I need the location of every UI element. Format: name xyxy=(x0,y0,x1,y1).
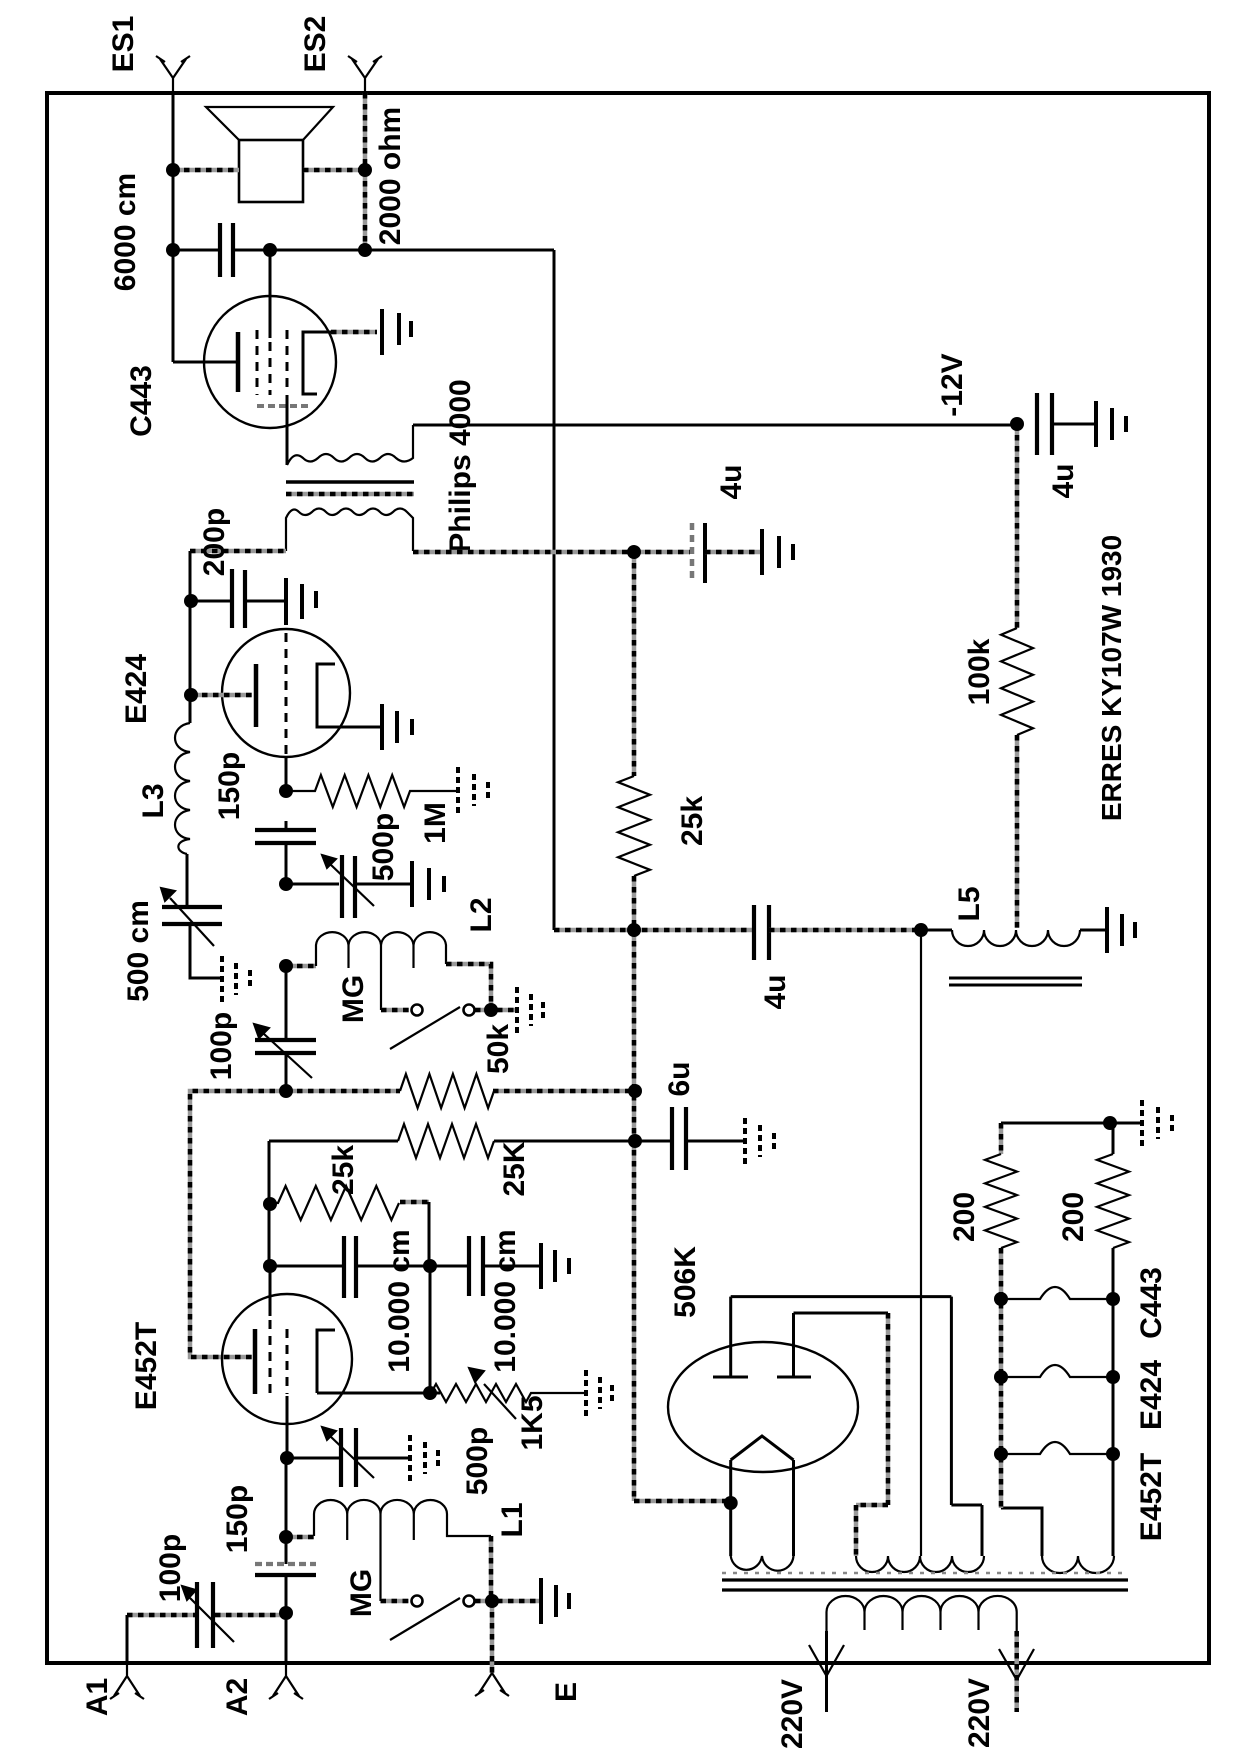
wire 150p stub xyxy=(285,821,288,884)
trimmer 500cm arrow xyxy=(161,888,214,946)
node E424 grid xyxy=(184,688,198,702)
ground 4u right xyxy=(1096,401,1126,447)
terminal A2 xyxy=(269,1662,303,1699)
trimmer 100p upper arrow xyxy=(254,1024,312,1078)
E452T dashed electrode 1 xyxy=(269,1320,272,1394)
ground 1M xyxy=(458,767,488,813)
capacitor 10000cm 1 xyxy=(344,1236,356,1298)
tube E452T envelope xyxy=(222,1294,352,1424)
svg-text:200: 200 xyxy=(948,1192,981,1242)
node heater C443 right xyxy=(1106,1292,1120,1306)
node y248 ES2 xyxy=(358,243,372,257)
node heater E452T left xyxy=(994,1447,1008,1461)
node A1 junction xyxy=(279,1606,293,1620)
wire A2 vertical mid xyxy=(285,1537,288,1613)
wire 100p upper stubs xyxy=(285,966,288,1091)
wire 25K line left xyxy=(269,1140,398,1143)
svg-text:ERRES KY107W 1930: ERRES KY107W 1930 xyxy=(1096,535,1127,821)
E452T grid bar xyxy=(253,1329,258,1394)
wire 100k bottom dotted xyxy=(1015,735,1020,928)
transformer secondary xyxy=(286,509,413,552)
resistor 200 right xyxy=(1097,1154,1129,1248)
wire 25k vert top dotted xyxy=(632,552,637,776)
heater E424 row xyxy=(1001,1365,1113,1377)
506K anode 2 xyxy=(777,1313,811,1377)
C443 grid bar xyxy=(236,332,241,392)
heater E452T row xyxy=(1001,1442,1113,1454)
tube 506K envelope xyxy=(668,1342,858,1472)
terminal ES1 xyxy=(156,56,190,93)
switch MG lower contact 1 xyxy=(412,1596,423,1607)
wire L2 right down xyxy=(446,964,491,1010)
resistor 100k xyxy=(1001,628,1033,735)
wire L1 tap to contact xyxy=(381,1599,410,1604)
node L1 top xyxy=(279,1530,293,1544)
node heater E452T right xyxy=(1106,1447,1120,1461)
wire L1 right down xyxy=(489,1536,494,1601)
svg-text:MG: MG xyxy=(337,975,370,1023)
transformer winding HV xyxy=(856,1556,984,1572)
wire HT centre tap xyxy=(920,930,922,1556)
ground L2 switch xyxy=(517,987,543,1033)
wire speaker right xyxy=(303,168,365,173)
svg-text:E452T: E452T xyxy=(130,1322,163,1410)
node B+ x1017 xyxy=(1010,417,1024,431)
tube E424 envelope xyxy=(222,629,350,757)
wire A2 vertical upper xyxy=(285,1458,288,1537)
capacitor 6u xyxy=(672,1107,686,1170)
svg-text:4u: 4u xyxy=(1047,463,1080,498)
resistor 50k xyxy=(400,1074,494,1108)
wire cap2 right xyxy=(483,1265,539,1268)
terminal E xyxy=(475,1673,509,1696)
wire L1 tap xyxy=(379,1514,381,1601)
wire 200p right xyxy=(245,600,284,603)
wire E452T anode out xyxy=(317,1392,440,1395)
trimmer 500p upper arrow xyxy=(322,855,374,906)
svg-text:50k: 50k xyxy=(482,1024,515,1074)
wire 25k jog xyxy=(400,1200,429,1205)
trimmer 500p upper xyxy=(342,855,355,918)
transformer winding heater xyxy=(1042,1556,1114,1573)
node 1K5 left xyxy=(423,1386,437,1400)
506K filament xyxy=(731,1436,794,1556)
svg-text:L1: L1 xyxy=(496,1502,529,1537)
svg-text:100p: 100p xyxy=(205,1012,238,1080)
node 6u xyxy=(628,1134,642,1148)
node speaker left xyxy=(166,163,180,177)
wire 500cm bottom xyxy=(190,924,220,978)
transformer winding rectifier xyxy=(731,1556,794,1571)
svg-text:500 cm: 500 cm xyxy=(122,900,155,1002)
wire C443 to transformer xyxy=(286,395,289,465)
node cap2 left xyxy=(423,1259,437,1273)
svg-text:500p: 500p xyxy=(367,813,400,881)
transformer core dotted xyxy=(286,492,414,497)
svg-text:1K5: 1K5 xyxy=(516,1395,549,1450)
heater C443 row xyxy=(1001,1287,1113,1299)
capacitor 4u left plate gray xyxy=(690,523,695,583)
wire E424 bottom xyxy=(285,757,288,791)
wire 500p lower left xyxy=(287,1457,339,1460)
506K anode 1 xyxy=(713,1297,748,1377)
terminal ES2 xyxy=(348,56,382,93)
inductor L1 ticks xyxy=(347,1514,414,1540)
trimmer 100p lower xyxy=(197,1582,213,1648)
capacitor 4u right plate xyxy=(703,523,707,583)
ground 1K5 xyxy=(586,1370,612,1416)
wire E452T cathode down xyxy=(286,1396,289,1458)
E452T anode wire top xyxy=(269,1266,272,1316)
svg-text:ES2: ES2 xyxy=(299,16,332,73)
wire L1 in xyxy=(286,1535,314,1540)
wire E424 cathode to ground xyxy=(317,726,380,729)
ground 10000cm 2 xyxy=(541,1243,569,1289)
wire anode1 top xyxy=(731,1297,982,1556)
wire dotted 50k line xyxy=(286,1089,400,1094)
terminal A1 xyxy=(110,1662,144,1699)
node 200p xyxy=(184,594,198,608)
terminal 220V right xyxy=(999,1631,1034,1712)
wire x269 down xyxy=(268,1141,271,1266)
resistor 1K5 arrow xyxy=(469,1368,516,1419)
svg-text:C443: C443 xyxy=(1135,1267,1168,1339)
svg-text:L5: L5 xyxy=(953,886,986,921)
resistor 200 left xyxy=(985,1154,1017,1248)
E424 anode bracket xyxy=(317,664,335,727)
wire C443 cathode to ground xyxy=(331,330,377,335)
resistor 1K5 xyxy=(431,1384,584,1402)
wire heater rail left top dotted xyxy=(999,1123,1004,1154)
wire heater winding left leg xyxy=(1001,1508,1042,1556)
svg-text:25k: 25k xyxy=(676,796,709,846)
terminal 220V left xyxy=(809,1631,844,1712)
ground E424 cathode xyxy=(382,704,412,750)
E452T center dashed xyxy=(286,1329,289,1394)
inductor L2 xyxy=(316,932,446,966)
wire heater rail left dotted xyxy=(999,1248,1004,1508)
wire 500p upper left xyxy=(286,883,339,886)
capacitor 6000cm xyxy=(220,223,233,277)
svg-text:MG: MG xyxy=(345,1569,378,1617)
node E424 bottom xyxy=(279,784,293,798)
node y551 xyxy=(627,545,641,559)
wire E424 grid in xyxy=(191,693,252,698)
svg-text:2000 ohm: 2000 ohm xyxy=(374,107,407,245)
node 500p lower xyxy=(280,1451,294,1465)
wire heater bus top xyxy=(1001,1122,1140,1125)
wire contact2 to ground xyxy=(475,1008,515,1013)
ground L5 xyxy=(1107,907,1135,953)
wire heater rail right xyxy=(1112,1248,1115,1556)
resistor 1M xyxy=(286,775,456,807)
inductor L3 xyxy=(175,723,190,854)
transformer primary Philips 4000 xyxy=(287,425,413,465)
ground 500p upper xyxy=(412,861,444,907)
transformer primary ticks xyxy=(865,1612,979,1630)
transformer core xyxy=(286,480,414,484)
wire node line y551 left xyxy=(190,549,286,554)
wire contact2 to E node xyxy=(475,1599,539,1604)
svg-text:500p: 500p xyxy=(461,1427,494,1495)
svg-text:E: E xyxy=(550,1682,583,1702)
ground 6u xyxy=(745,1118,774,1164)
svg-text:E424: E424 xyxy=(1135,1360,1168,1430)
node L2 ground xyxy=(484,1003,498,1017)
wire A1 vertical xyxy=(126,1615,129,1662)
inductor L1 xyxy=(314,1500,491,1536)
switch MG upper lever xyxy=(390,1007,460,1049)
wire to 4u mid xyxy=(634,550,690,555)
wire 4u bottom right dotted xyxy=(769,928,921,933)
svg-text:150p: 150p xyxy=(213,752,246,820)
wire E terminal xyxy=(490,1601,495,1673)
ground heater bus xyxy=(1142,1100,1172,1146)
wire A1 dashed xyxy=(127,1613,286,1618)
trimmer 500cm plates xyxy=(162,907,222,924)
C443 grid dashed 2 xyxy=(286,330,289,393)
ground 500cm xyxy=(222,956,250,1002)
trimmer 500p lower arrow xyxy=(322,1427,374,1478)
wire L5 right xyxy=(1080,929,1105,932)
transformer core line 2 xyxy=(722,1588,1128,1591)
ground L1 switch xyxy=(541,1578,569,1624)
wire right vertical x554 xyxy=(553,250,556,930)
svg-text:220V: 220V xyxy=(776,1679,809,1749)
wire L2 tap xyxy=(380,945,382,1010)
svg-text:4u: 4u xyxy=(759,974,792,1009)
wire 100k top dotted xyxy=(1015,424,1020,628)
wire ES2 vertical xyxy=(363,93,368,250)
C443 center dashed xyxy=(269,342,272,395)
wire anode line y248 xyxy=(173,249,554,252)
wire transformer to B line xyxy=(413,424,1017,427)
switch MG lower lever xyxy=(390,1598,460,1640)
C443 anode wire top xyxy=(269,250,272,338)
ground 200p xyxy=(286,578,316,625)
svg-text:A2: A2 xyxy=(221,1678,254,1716)
node 506K filament xyxy=(724,1496,738,1510)
svg-text:Philips 4000: Philips 4000 xyxy=(444,379,477,552)
switch MG upper contact 1 xyxy=(412,1005,423,1016)
wire heater dotted x635 down xyxy=(634,930,730,1501)
capacitor 4u bottom xyxy=(754,905,769,960)
wire speaker left xyxy=(173,168,239,173)
svg-text:1M: 1M xyxy=(419,802,452,844)
node grid leak top xyxy=(263,1197,277,1211)
node heater E424 left xyxy=(994,1370,1008,1384)
capacitor 200p xyxy=(232,569,245,628)
inductor L5 xyxy=(952,930,1080,946)
wire L2 tap to contact xyxy=(381,1008,409,1013)
svg-text:6u: 6u xyxy=(663,1061,696,1096)
wire 500p lower right xyxy=(356,1457,408,1460)
svg-text:10.000 cm: 10.000 cm xyxy=(383,1229,416,1372)
transformer primary 220V xyxy=(827,1596,1017,1631)
node heater E424 right xyxy=(1106,1370,1120,1384)
wire 25k down xyxy=(428,1202,431,1266)
transformer core line 1 xyxy=(722,1578,1128,1581)
svg-text:200p: 200p xyxy=(198,508,231,576)
wire 25k vert bottom dotted xyxy=(632,876,637,930)
capacitor 150p lower xyxy=(255,1562,316,1566)
wire anode2 dotted down xyxy=(856,1313,888,1556)
wire ES1 vertical xyxy=(172,93,175,362)
wire heater rail right top xyxy=(1112,1123,1115,1154)
node y248 C443 anode xyxy=(263,243,277,257)
trimmer 100p lower arrow xyxy=(182,1586,234,1642)
wire A2 vertical lower xyxy=(285,1613,288,1662)
svg-text:ES1: ES1 xyxy=(107,16,140,73)
wire 200p left xyxy=(191,600,230,603)
svg-text:150p: 150p xyxy=(221,1485,254,1553)
resistor 25k vertical xyxy=(618,776,650,876)
wire 500p upper right xyxy=(355,883,410,886)
wire 6u lead xyxy=(635,1140,670,1143)
node L5 left xyxy=(914,923,928,937)
wire cap1 left xyxy=(270,1265,342,1268)
node 25k bottom xyxy=(627,923,641,937)
wire 6u to ground xyxy=(686,1140,743,1143)
svg-text:E452T: E452T xyxy=(1135,1453,1168,1541)
inductor L2 ticks xyxy=(349,945,414,968)
C443 cathode bracket xyxy=(303,332,331,394)
switch MG upper contact 2 xyxy=(464,1005,475,1016)
tube C443 envelope xyxy=(204,296,336,428)
wire HT dotted y930 left xyxy=(554,928,752,933)
node grid line x286 xyxy=(279,1084,293,1098)
svg-text:L2: L2 xyxy=(465,897,498,932)
wire x430 down xyxy=(429,1266,432,1393)
C443 grid dashed 1 xyxy=(256,330,259,395)
E424 center dashed xyxy=(285,633,288,756)
capacitor 10000cm 2 xyxy=(469,1236,483,1296)
svg-text:10.000 cm: 10.000 cm xyxy=(489,1229,522,1372)
svg-text:6000 cm: 6000 cm xyxy=(109,173,142,291)
wire dotted grid corner xyxy=(190,1091,286,1357)
ground 500p lower xyxy=(410,1435,438,1481)
switch MG lower contact 2 xyxy=(464,1596,475,1607)
svg-text:100p: 100p xyxy=(154,1534,187,1602)
wire 4u right to ground xyxy=(1052,423,1094,426)
svg-text:220V: 220V xyxy=(963,1678,996,1748)
svg-text:25K: 25K xyxy=(498,1141,531,1196)
wire 25K right xyxy=(494,1140,635,1143)
svg-text:100k: 100k xyxy=(963,638,996,705)
ground 4u mid xyxy=(762,529,793,575)
node speaker right xyxy=(358,163,372,177)
wire L2 in xyxy=(286,964,316,969)
E452T cathode bracket xyxy=(317,1330,335,1393)
svg-text:-12V: -12V xyxy=(936,353,969,416)
wire 4u to ground xyxy=(705,550,760,555)
svg-text:E424: E424 xyxy=(120,654,153,724)
svg-text:A1: A1 xyxy=(81,1678,114,1716)
node 500p upper xyxy=(279,877,293,891)
node 50k right xyxy=(628,1084,642,1098)
node L2 top xyxy=(279,959,293,973)
transformer core dashes xyxy=(722,1572,1128,1575)
trimmer 100p upper plates xyxy=(255,1040,316,1053)
svg-text:4u: 4u xyxy=(715,464,748,499)
svg-text:C443: C443 xyxy=(125,365,158,437)
inductor L5 core xyxy=(949,978,1082,985)
wire L5 lead xyxy=(921,929,952,932)
wire cap2 left xyxy=(430,1265,467,1268)
trimmer 500p lower xyxy=(341,1428,356,1487)
capacitor 4u right plates xyxy=(1037,393,1052,455)
wire anode2 top xyxy=(794,1312,889,1315)
node y248 ES1 xyxy=(166,243,180,257)
resistor 25k grid leak xyxy=(270,1186,399,1220)
svg-text:200: 200 xyxy=(1057,1192,1090,1242)
loudspeaker xyxy=(206,107,333,202)
wire cap1 right xyxy=(356,1265,429,1268)
resistor 25K xyxy=(398,1124,494,1158)
node E xyxy=(485,1594,499,1608)
ground C443 cathode xyxy=(382,309,411,355)
wire node line y551 right xyxy=(413,550,634,555)
svg-text:506K: 506K xyxy=(669,1246,702,1318)
wire C443 grid in xyxy=(173,361,236,364)
node heater C443 left xyxy=(994,1292,1008,1306)
C443 bottom connector xyxy=(257,404,310,408)
E424 grid bar xyxy=(254,664,259,727)
wire 50k right dotted xyxy=(493,1089,635,1094)
svg-text:L3: L3 xyxy=(137,783,170,818)
svg-text:25k: 25k xyxy=(327,1145,360,1195)
node heater bus ground xyxy=(1103,1116,1117,1130)
node cap1 left xyxy=(263,1259,277,1273)
wire x190 main vertical xyxy=(187,551,190,907)
capacitor 150p upper xyxy=(255,830,316,843)
